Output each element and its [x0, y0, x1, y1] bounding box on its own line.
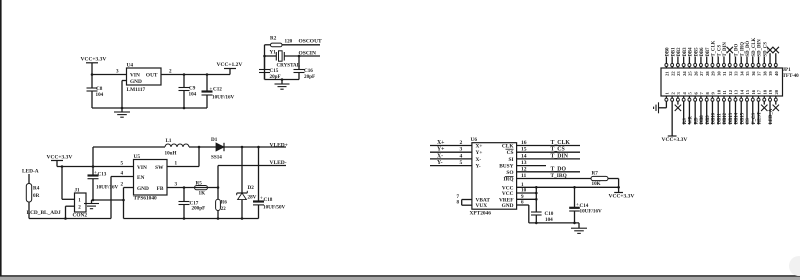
svg-text:28V: 28V — [248, 195, 257, 201]
svg-text:VCC: VCC — [502, 191, 514, 197]
svg-text:104: 104 — [189, 92, 197, 98]
capacitor C9 104 — [179, 73, 197, 108]
svg-text:39: 39 — [768, 71, 773, 76]
sheet bottom border — [0, 275, 800, 277]
svg-text:11: 11 — [521, 173, 526, 179]
svg-text:DB4: DB4 — [689, 47, 694, 57]
wire U5 SW to rail — [167, 147, 199, 167]
wire U5 GND to ground rail — [124, 188, 134, 219]
svg-text:T_DIN: T_DIN — [723, 42, 728, 57]
svg-text:4: 4 — [121, 171, 124, 177]
svg-text:18: 18 — [762, 89, 767, 94]
svg-text:SD_CLK: SD_CLK — [752, 37, 757, 56]
svg-text:C18: C18 — [264, 197, 273, 203]
svg-text:BUSY: BUSY — [499, 164, 513, 170]
svg-text:16: 16 — [521, 140, 527, 146]
svg-text:VCC+3.3V: VCC+3.3V — [81, 57, 107, 63]
svg-text:LED-A: LED-A — [22, 169, 39, 175]
svg-text:26: 26 — [693, 71, 698, 76]
svg-text:T_CS: T_CS — [717, 45, 722, 57]
svg-text:20pF: 20pF — [304, 74, 315, 80]
svg-text:U4: U4 — [127, 62, 134, 68]
wire / net label VLED+ — [224, 143, 288, 149]
svg-text:120: 120 — [285, 39, 293, 45]
svg-text:T_CLK: T_CLK — [551, 140, 571, 146]
svg-text:1K: 1K — [199, 190, 206, 196]
svg-text:RD: RD — [694, 117, 699, 124]
pin 14 wire / net label DB15 — [740, 96, 746, 125]
wire ground rail (backlight) — [124, 217, 259, 220]
svg-text:10: 10 — [716, 89, 721, 94]
svg-text:Y1: Y1 — [270, 50, 277, 56]
svg-text:34: 34 — [739, 71, 744, 76]
wire crystal ground rail — [265, 78, 300, 81]
svg-text:DB12: DB12 — [723, 112, 728, 124]
svg-text:DB9: DB9 — [706, 115, 711, 125]
svg-text:25: 25 — [688, 71, 693, 76]
svg-text:SW: SW — [155, 165, 164, 171]
svg-text:DB11: DB11 — [717, 113, 722, 125]
wire inductor rail riser — [92, 147, 94, 167]
ic U6 XPT2046 — [470, 137, 517, 217]
svg-text:DB7: DB7 — [706, 47, 711, 57]
svg-text:40: 40 — [774, 71, 779, 76]
svg-text:8: 8 — [457, 200, 460, 206]
svg-text:SD_CS: SD_CS — [763, 42, 768, 57]
pin 16 wire / net label F_CS — [751, 96, 757, 125]
svg-text:28: 28 — [705, 71, 710, 76]
svg-text:16: 16 — [751, 89, 756, 94]
svg-text:XPT2046: XPT2046 — [470, 211, 492, 217]
power flag VCC+3.3V (regulator input) — [81, 57, 107, 75]
capacitor C15 20pF — [259, 56, 281, 80]
svg-text:SD_DIN: SD_DIN — [758, 39, 763, 57]
svg-text:2: 2 — [169, 69, 172, 75]
net label LCD_BL_ADJ — [27, 210, 61, 216]
wire U6 GND pin6 — [517, 200, 529, 223]
svg-text:2: 2 — [460, 140, 463, 146]
pin 38 wire / net label SD_CS — [763, 42, 769, 68]
capacitor C13 10UF/16V — [88, 167, 119, 201]
svg-text:T_IRQ: T_IRQ — [740, 42, 745, 57]
svg-text:35: 35 — [745, 71, 750, 76]
svg-text:VLED+: VLED+ — [270, 143, 288, 149]
svg-text:37: 37 — [757, 71, 762, 76]
ground symbol (touch) — [571, 223, 587, 234]
pin 33 wire / net label T_DO — [734, 44, 740, 68]
svg-text:3: 3 — [116, 69, 119, 75]
wire / net label OSCOUT — [282, 39, 322, 45]
capacitor C17 200pF — [179, 188, 206, 219]
crystal Y1 — [270, 50, 301, 69]
svg-text:10UF/50V: 10UF/50V — [263, 205, 286, 211]
svg-text:X-: X- — [437, 153, 443, 159]
pin 21 wire / net label DB0 — [665, 47, 671, 68]
pin 3 label U4 — [116, 69, 119, 75]
pin 19 wire / net label LED_A — [769, 96, 775, 125]
svg-text:X-: X- — [476, 157, 482, 163]
svg-text:WR: WR — [689, 116, 694, 125]
wires / net labels X+ Y+ X- Y- — [430, 140, 472, 166]
svg-text:T_IRQ: T_IRQ — [551, 173, 567, 179]
svg-text:CS: CS — [507, 150, 514, 156]
svg-text:1: 1 — [175, 161, 178, 167]
svg-text:10UF/16V: 10UF/16V — [212, 95, 235, 101]
svg-text:DB0: DB0 — [666, 47, 671, 57]
pin 39 no-connect X — [767, 47, 773, 68]
svg-text:10: 10 — [521, 188, 527, 194]
svg-text:U5: U5 — [134, 154, 141, 160]
pin 23 wire / net label DB2 — [676, 47, 682, 68]
svg-text:DB5: DB5 — [694, 47, 699, 57]
svg-text:Y+: Y+ — [476, 150, 483, 156]
svg-text:C10: C10 — [545, 211, 554, 217]
svg-text:4: 4 — [460, 153, 463, 159]
svg-text:U6: U6 — [471, 137, 478, 143]
svg-text:VUX: VUX — [476, 203, 488, 209]
svg-text:5: 5 — [460, 160, 463, 166]
svg-text:SO: SO — [506, 170, 513, 176]
wire / net label VLED- — [218, 160, 287, 187]
svg-text:33: 33 — [734, 71, 739, 76]
diode D1 SS14 — [211, 137, 224, 161]
svg-text:Y-: Y- — [476, 164, 481, 170]
ground symbol (C13) — [84, 200, 99, 209]
capacitor C18 10UF/50V — [253, 147, 286, 219]
pin 30 wire / net label T_CS — [717, 45, 723, 68]
pin 31 wire / net label T_DIN — [722, 42, 728, 68]
wire U4 GND pin to ground — [122, 81, 127, 109]
svg-text:DB3: DB3 — [683, 47, 688, 57]
svg-text:38: 38 — [762, 71, 767, 76]
svg-text:D1: D1 — [211, 137, 218, 143]
power flag VCC+1.2V — [217, 62, 243, 75]
pin 2 wire to VCC+3.3V — [668, 96, 677, 136]
pin 27 wire / net label DB6 — [699, 47, 705, 68]
wires / net labels T_CLK T_CS T_DIN BUSY T_DO T_IRQ — [517, 140, 591, 179]
capacitor C10 104 — [531, 187, 554, 223]
resistor R5 1K — [195, 181, 208, 197]
svg-text:GND: GND — [137, 186, 149, 192]
resistor R2 120 — [265, 36, 293, 47]
svg-text:T_CLK: T_CLK — [712, 40, 717, 56]
svg-text:X+: X+ — [476, 144, 483, 150]
svg-text:11: 11 — [722, 89, 727, 94]
svg-text:DB13: DB13 — [729, 112, 734, 124]
svg-text:200pF: 200pF — [192, 206, 206, 212]
pin 10 wire / net label DB11 — [717, 96, 723, 125]
connector bottom pin numbers 1-20 — [665, 89, 779, 94]
svg-text:GND: GND — [130, 79, 142, 85]
svg-text:D2: D2 — [248, 185, 255, 191]
svg-text:TPS61040: TPS61040 — [134, 196, 157, 202]
wire R4 to LCD_BL_ADJ net — [29, 202, 111, 219]
svg-text:15: 15 — [521, 147, 527, 153]
svg-text:OUT: OUT — [146, 73, 158, 79]
capacitor C16 20pF — [294, 56, 316, 80]
wire crystal left branch — [263, 45, 276, 80]
svg-text:VIN: VIN — [130, 73, 140, 79]
ic U5 TPS61040 — [134, 154, 168, 202]
pin 15 wire / net label CS — [746, 96, 752, 125]
svg-text:6: 6 — [521, 200, 524, 206]
wire U6 VCC pin1 rail — [517, 182, 620, 189]
svg-text:13: 13 — [521, 160, 527, 166]
pin 18 no-connect X — [761, 96, 767, 111]
svg-text:SI: SI — [508, 157, 513, 163]
svg-text:27: 27 — [699, 71, 704, 76]
ground symbol (crystal) — [275, 80, 290, 90]
svg-text:OSCIN: OSCIN — [299, 51, 316, 57]
svg-text:VCC+3.3V: VCC+3.3V — [662, 137, 688, 143]
svg-text:CRYSTAL: CRYSTAL — [277, 63, 301, 69]
svg-text:32: 32 — [728, 71, 733, 76]
svg-text:36: 36 — [751, 71, 756, 76]
pin 34 wire / net label T_IRQ — [740, 42, 746, 68]
pin 28 wire / net label DB7 — [705, 47, 711, 68]
power flag VCC+3.3V (connector) — [662, 137, 688, 143]
sheet left border — [0, 0, 2, 276]
svg-text:10K: 10K — [592, 181, 601, 187]
svg-text:31: 31 — [722, 71, 727, 76]
svg-text:5: 5 — [121, 161, 124, 167]
svg-text:T_DIN: T_DIN — [551, 153, 569, 159]
svg-text:R6: R6 — [221, 201, 228, 206]
svg-text:CON2: CON2 — [73, 213, 88, 219]
pin 1 wire to ground — [659, 96, 668, 108]
wire U6 VREF pin9 — [517, 194, 538, 201]
pin 40 no-connect X — [773, 47, 779, 68]
svg-text:21: 21 — [665, 71, 670, 76]
svg-text:2: 2 — [121, 182, 124, 188]
capacitor C8 104 — [87, 75, 104, 109]
wire J1 pin2 to LCD_BL_ADJ — [64, 206, 74, 220]
svg-text:SS14: SS14 — [211, 155, 222, 161]
svg-text:22: 22 — [221, 207, 226, 212]
svg-text:30: 30 — [716, 71, 721, 76]
pin 36 wire / net label SD_CLK — [751, 37, 757, 68]
svg-text:C13: C13 — [98, 172, 107, 178]
svg-text:DB14: DB14 — [735, 112, 740, 124]
svg-text:R7: R7 — [592, 171, 599, 177]
svg-text:3: 3 — [175, 182, 178, 188]
wire L1 to D1 anode — [189, 146, 216, 149]
svg-text:GND: GND — [502, 203, 514, 209]
pin 25 wire / net label DB4 — [688, 47, 694, 68]
wire VCC rail to U4 VIN — [92, 74, 127, 76]
svg-text:29: 29 — [711, 71, 716, 76]
wires U6 pins 7 8 VBAT VUX — [457, 194, 472, 206]
svg-text:CLK: CLK — [502, 144, 514, 150]
svg-text:X+: X+ — [437, 140, 445, 146]
resistor R7 10K — [591, 171, 619, 188]
wire ground rail (touch) — [529, 222, 579, 225]
pin 17 wire / net label REST — [757, 96, 763, 125]
svg-text:IRQ: IRQ — [503, 177, 513, 183]
pin 3 no-connect X — [675, 96, 681, 111]
svg-text:R2: R2 — [270, 36, 277, 42]
svg-text:20: 20 — [774, 89, 779, 94]
capacitor C14 10UF/16V — [569, 187, 602, 223]
pin 12 wire / net label DB13 — [728, 96, 734, 125]
svg-text:14: 14 — [739, 89, 744, 94]
svg-text:R4: R4 — [33, 186, 40, 192]
capacitor C12 10UF/16V — [202, 73, 235, 108]
svg-text:23: 23 — [676, 71, 681, 76]
svg-text:12: 12 — [728, 89, 733, 94]
ground symbol (connector pin 1) — [654, 102, 659, 113]
svg-text:REST: REST — [758, 111, 763, 124]
pin 37 wire / net label SD_DIN — [757, 39, 763, 68]
svg-text:RS: RS — [683, 118, 688, 124]
pin 5 wire / net label WR — [688, 96, 694, 125]
power flag VCC+3.3V (backlight) — [47, 155, 73, 167]
wire ground rail (regulator) — [92, 107, 207, 110]
svg-text:DB8: DB8 — [700, 115, 705, 125]
svg-text:12: 12 — [521, 166, 527, 172]
svg-text:SD_DO: SD_DO — [746, 41, 751, 57]
svg-text:C12: C12 — [213, 87, 222, 93]
connector top pin numbers 21-40 — [665, 71, 779, 76]
wire U5 FB node — [167, 186, 219, 189]
wire C13 to GND node — [92, 199, 125, 202]
svg-text:VCC+3.3V: VCC+3.3V — [609, 193, 635, 199]
svg-text:24: 24 — [682, 71, 687, 76]
pin 8 wire / net label DB9 — [705, 96, 711, 125]
pin 20 no-connect X — [773, 96, 779, 111]
connector J1 CON2 — [73, 188, 88, 219]
svg-text:VLED-: VLED- — [270, 160, 287, 166]
svg-text:VIN: VIN — [137, 165, 147, 171]
pin 13 wire / net label DB14 — [734, 96, 740, 125]
svg-text:14: 14 — [521, 153, 527, 159]
svg-text:19: 19 — [768, 89, 773, 94]
pin 22 wire / net label DB1 — [671, 47, 677, 68]
pin 11 wire / net label DB12 — [722, 96, 728, 125]
svg-text:0R: 0R — [33, 193, 40, 199]
wire VCC to U5 VIN — [57, 165, 134, 168]
wire U4 OUT to VCC+1.2V — [161, 69, 230, 75]
resistor R4 0R — [26, 184, 39, 203]
wire U6 VCC pin10 — [517, 188, 538, 195]
svg-text:17: 17 — [757, 89, 762, 94]
svg-text:DB2: DB2 — [677, 47, 682, 57]
svg-text:LM1117: LM1117 — [127, 87, 146, 93]
power flag VCC+3.3V (touch) — [609, 187, 635, 199]
svg-text:DB1: DB1 — [671, 47, 676, 57]
svg-text:Y+: Y+ — [437, 147, 445, 153]
pin 4 wire / net label RS — [682, 96, 688, 125]
svg-text:DB6: DB6 — [700, 47, 705, 57]
svg-text:Y-: Y- — [437, 160, 443, 166]
inductor L1 10uH — [165, 138, 190, 157]
junction node VCC/C8 — [91, 73, 94, 76]
svg-text:CS: CS — [746, 118, 751, 124]
wire J1 pin1 branch — [62, 167, 75, 200]
pin 7 wire / net label DB8 — [699, 96, 705, 125]
svg-text:10UF/16V: 10UF/16V — [96, 185, 119, 191]
wire top rail to L1 — [93, 146, 165, 148]
connector JP1 TFT-40 body — [661, 67, 799, 96]
pin 24 wire / net label DB3 — [682, 47, 688, 68]
pin 26 wire / net label DB5 — [694, 47, 700, 68]
net label LED-A — [22, 169, 39, 184]
svg-text:T_DO: T_DO — [735, 44, 740, 57]
svg-text:10uH: 10uH — [165, 151, 177, 157]
pin 35 wire / net label SD_DO — [746, 41, 752, 68]
pin 32 no-connect X — [727, 47, 733, 68]
svg-text:10UF/16V: 10UF/16V — [580, 208, 603, 214]
svg-text:3: 3 — [460, 147, 463, 153]
svg-text:22: 22 — [670, 71, 675, 76]
svg-text:15: 15 — [745, 89, 750, 94]
pin number labels U5 — [121, 161, 178, 188]
svg-text:F_CS: F_CS — [752, 113, 757, 125]
svg-text:VCC+3.3V: VCC+3.3V — [47, 155, 73, 161]
svg-text:OSCOUT: OSCOUT — [299, 39, 323, 45]
svg-text:104: 104 — [96, 92, 104, 98]
svg-text:T_DO: T_DO — [551, 166, 567, 172]
wire / net label OSCIN — [284, 51, 320, 58]
svg-text:T_CS: T_CS — [551, 147, 565, 153]
wire U5 EN to LCD_BL_ADJ — [111, 177, 134, 219]
zener diode D2 28V — [237, 147, 257, 219]
ground symbol (regulator) — [114, 108, 130, 117]
svg-text:EN: EN — [137, 175, 145, 181]
svg-text:FB: FB — [157, 186, 164, 192]
svg-text:DB15: DB15 — [740, 112, 745, 124]
svg-text:LCD_BL_ADJ: LCD_BL_ADJ — [27, 210, 61, 216]
pin 9 wire / net label DB10 — [711, 96, 717, 125]
svg-text:TFT-40: TFT-40 — [783, 73, 800, 79]
svg-text:DB10: DB10 — [712, 112, 717, 124]
pin 29 wire / net label T_CLK — [711, 40, 717, 68]
regulator U4 LM1117 — [127, 62, 162, 93]
pin 6 wire / net label RD — [694, 96, 700, 125]
svg-text:13: 13 — [734, 89, 739, 94]
svg-text:L1: L1 — [166, 138, 172, 144]
svg-text:VCC+1.2V: VCC+1.2V — [217, 62, 243, 68]
resistor R6 22 — [216, 188, 228, 219]
